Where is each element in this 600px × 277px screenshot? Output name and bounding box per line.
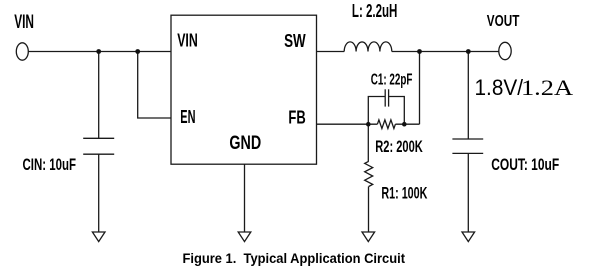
svg-text:FB: FB (288, 106, 305, 127)
svg-text:VIN: VIN (14, 12, 34, 33)
node B (R2 right) (402, 122, 407, 127)
inductor L1 (344, 42, 392, 52)
wire COUT to ground (467, 153, 469, 232)
svg-text:VIN: VIN (177, 30, 198, 51)
ground R1 (362, 232, 375, 242)
wire inductor to VOUT terminal (392, 51, 499, 53)
capacitor COUT plates (452, 138, 483, 140)
capacitor C1 plates (384, 89, 386, 106)
svg-text:SW: SW (284, 30, 306, 51)
capacitor CIN plates (83, 137, 114, 139)
svg-text:EN: EN (180, 106, 195, 127)
ground CIN (92, 232, 105, 242)
svg-text:1.8V/: 1.8V/ (475, 75, 524, 100)
wire SW pin to inductor (317, 51, 345, 53)
svg-text:L: 2.2uH: L: 2.2uH (352, 1, 398, 21)
wire CIN branch down (98, 52, 100, 139)
wire feedback tap down (419, 52, 421, 125)
ground GND pin (238, 232, 251, 242)
svg-text:1.2A: 1.2A (521, 75, 573, 100)
svg-text:R2: 200K: R2: 200K (375, 138, 423, 156)
resistor R2 (377, 120, 395, 129)
svg-text:Figure 1. Typical Application: Figure 1. Typical Application Circuit (183, 250, 406, 266)
wire COUT branch down (467, 52, 469, 140)
wire FB pin to node A (317, 123, 378, 125)
wire R2 to feedback tap (395, 123, 419, 125)
input terminal VIN (16, 43, 28, 60)
resistor R1 (365, 161, 373, 186)
ground COUT (462, 232, 475, 242)
svg-text:GND: GND (229, 133, 261, 154)
capacitor C1 loop right (389, 97, 405, 125)
IC U1 body (regulator) (171, 15, 317, 164)
wire GND pin down (244, 164, 246, 232)
junction node input-EN (135, 49, 140, 54)
wire EN branch (138, 52, 171, 119)
wire node A to R1 (367, 124, 369, 161)
junction node input-CIN (96, 49, 101, 54)
junction node output-FB tap (417, 49, 422, 54)
svg-text:R1: 100K: R1: 100K (381, 185, 427, 203)
capacitor C1 loop left (368, 97, 385, 125)
wire R1 to ground (368, 187, 370, 233)
svg-text:VOUT: VOUT (487, 13, 520, 30)
node A (FB divider) (366, 122, 371, 127)
output terminal VOUT (499, 42, 511, 59)
svg-text:CIN: 10uF: CIN: 10uF (23, 155, 77, 174)
svg-text:COUT: 10uF: COUT: 10uF (491, 155, 559, 174)
wire CIN to ground (98, 154, 100, 232)
wire input to IC VIN pin (28, 51, 171, 53)
junction node output-COUT (466, 49, 471, 54)
svg-text:C1: 22pF: C1: 22pF (371, 71, 413, 88)
